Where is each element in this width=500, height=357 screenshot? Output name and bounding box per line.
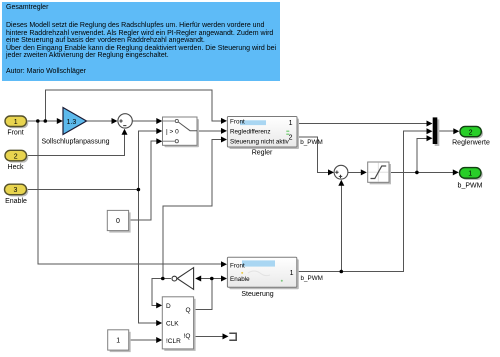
svg-text:Steuerung nicht aktiv: Steuerung nicht aktiv [230, 139, 290, 146]
svg-text:Enable: Enable [5, 198, 27, 205]
svg-text:!Q: !Q [184, 333, 191, 340]
svg-text:1: 1 [116, 338, 120, 345]
svg-text:CLK: CLK [166, 321, 179, 328]
svg-text:Steuerung: Steuerung [241, 291, 273, 298]
svg-text:| > 0: | > 0 [166, 129, 179, 136]
svg-text:Sollschlupfanpassung: Sollschlupfanpassung [41, 139, 109, 146]
svg-text:1: 1 [468, 171, 472, 178]
svg-text:Heck: Heck [8, 164, 24, 171]
svg-text:Regledifferenz: Regledifferenz [230, 128, 271, 135]
svg-text:Reglerwerte: Reglerwerte [452, 140, 490, 147]
svg-text:Front: Front [230, 118, 245, 125]
svg-text:!CLR: !CLR [166, 338, 181, 345]
svg-text:1: 1 [289, 120, 293, 127]
svg-text:Regler: Regler [252, 150, 273, 157]
svg-text:b_PWM: b_PWM [301, 275, 323, 282]
svg-text:Q: Q [185, 307, 190, 314]
svg-text:0: 0 [116, 218, 120, 225]
svg-text:1: 1 [290, 270, 294, 277]
svg-text:Enable: Enable [230, 276, 250, 283]
svg-text:Front: Front [230, 262, 245, 269]
svg-text:b_PWM: b_PWM [458, 183, 483, 190]
svg-text:2: 2 [469, 129, 473, 136]
svg-text:3: 3 [14, 187, 18, 194]
svg-text:Front: Front [7, 130, 23, 137]
svg-text:1.3: 1.3 [67, 119, 77, 126]
svg-text:D: D [166, 303, 171, 310]
svg-text:2: 2 [14, 153, 18, 160]
svg-text:b_PWM: b_PWM [300, 139, 322, 146]
svg-text:2: 2 [289, 134, 293, 141]
svg-text:1: 1 [14, 119, 18, 126]
